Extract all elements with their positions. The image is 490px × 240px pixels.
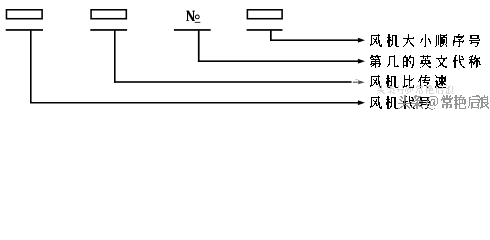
wire leader to label 3 [114,81,352,83]
watermark bottom 头条号@常艳后浪 [398,95,489,110]
fan model designation diagram [0,0,490,113]
label 风机大小顺序号 [370,34,480,47]
wire leader to label 2 [198,60,358,62]
wire vertical V3 [198,30,200,63]
arrowhead 4 [358,100,365,105]
watermark faint row3 [377,85,454,94]
underline L1 [6,29,43,31]
label 风机代号 [370,96,430,109]
box B1 [6,9,43,20]
wire leader to label 1 [270,39,358,41]
box B2 [90,9,127,20]
arrowhead 3 (degraded by watermark) [358,80,365,84]
underline L4 [247,29,283,31]
underline L3 [174,29,211,31]
label 第几的英文代称 [370,55,481,68]
box B3 [247,9,283,20]
arrowhead 2 [358,59,365,64]
wire vertical V1 [30,30,32,104]
wire vertical V4 [270,30,272,42]
label 风机比传速 [370,75,446,88]
wire vertical V2 [114,30,116,83]
arrowhead 1 [358,38,365,43]
numero sign label [186,11,200,23]
wire leader to label 4 [30,102,358,104]
underline L2 [90,29,127,31]
